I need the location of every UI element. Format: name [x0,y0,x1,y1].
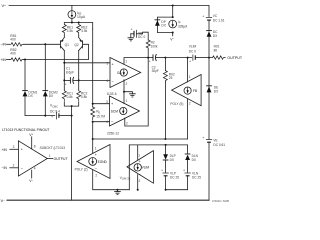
svg-text:400: 400 [10,37,16,41]
wire V- rail [7,199,209,201]
svg-text:3: 3 [106,100,108,104]
svg-text:−IN: −IN [2,166,8,170]
svg-text:SCM: SCM [111,110,118,114]
diode DP DX [155,20,167,28]
svg-text:DC 0: DC 0 [189,49,196,53]
svg-text:113E-6: 113E-6 [107,92,117,96]
junction dot ground stub [123,91,125,93]
ground symbol VB [128,34,134,41]
svg-text:FB: FB [193,89,197,93]
resistor R2 100k [146,40,158,49]
wire output line [165,57,191,59]
wire R02 top [164,58,166,71]
junction dot IEE rail [71,22,73,24]
wire IP tap down [172,6,174,18]
svg-text:3: 3 [107,61,109,65]
wire top V+ rail [9,5,209,7]
svg-text:2: 2 [95,174,97,178]
junction dot tail [71,105,73,107]
svg-text:0.8k: 0.8k [67,95,73,99]
svg-text:1: 1 [189,75,191,79]
svg-text:VLIM: VLIM [189,45,197,49]
junction dot VCMC to tail [71,115,73,117]
svg-text:4: 4 [106,120,108,124]
node V- rail label [1,198,6,203]
svg-text:DC 1.61: DC 1.61 [213,18,225,22]
wire bus output to DE [208,58,210,93]
svg-text:8.6pF: 8.6pF [66,70,74,74]
svg-text:30pF: 30pF [152,69,159,73]
pinout V+ stub [29,132,36,149]
svg-text:4.5k: 4.5k [67,29,73,33]
node -IN label [1,43,7,47]
wire IEE to emitter rail [71,18,73,22]
node +IN label [1,58,7,62]
op-amp FB triangle [172,75,202,106]
op-amp EGND triangle [77,145,110,179]
svg-text:VLIM 1k: VLIM 1k [120,176,131,181]
svg-text:+: + [65,83,67,87]
svg-text:15.7M: 15.7M [96,115,105,119]
svg-text:EGND: EGND [98,160,108,164]
svg-text:8: 8 [34,144,36,148]
wire node line A [93,138,188,140]
wire +IN lead [7,59,10,61]
current source IEE 10uA [68,11,86,19]
wire GA pin1 [124,58,148,65]
junction dot +IN node [24,59,26,61]
wire GA pin4 line [79,79,110,81]
junction dot output bus [208,57,210,59]
junction dot DLP top [165,144,167,146]
junction dot FB pin1 [187,57,189,59]
wire FB pin2 vertical [188,99,191,139]
wire -IN to Q1 base [24,43,61,45]
wire tail down to V- rail [71,106,73,200]
battery VB DC 0 [131,28,146,40]
junction dot R02 node line [164,138,166,140]
current source IP 328uA [169,20,188,29]
wire VB to R2 [139,32,148,40]
svg-text:225E-12: 225E-12 [107,131,119,135]
svg-text:2: 2 [126,122,128,126]
resistor RE 15.7M [91,107,106,120]
diode DLP DX [163,145,176,162]
svg-text:1: 1 [95,147,97,151]
battery VLIM DC 0 [189,45,209,64]
wire box right edge / DLN chain [187,145,189,154]
svg-text:+: + [131,28,133,32]
wire Q2 collector vertical [78,51,80,90]
pinout V- stub [29,166,36,183]
junction dot -IN node [44,43,46,45]
diode DC DX [207,30,219,38]
wire -IN lead [7,43,10,45]
svg-text:4.5k: 4.5k [81,29,87,33]
op-amp GA stage triangle [107,58,141,88]
svg-text:+: + [161,168,163,172]
svg-text:−IN: −IN [1,43,7,47]
wire R2 to output node [147,49,149,57]
svg-text:100k: 100k [151,44,158,48]
svg-text:+: + [202,136,204,140]
svg-text:.SUBCKT (LT1013: .SUBCKT (LT1013 [39,146,66,150]
ground symbol mid [124,92,135,97]
wire SCM pin4 stub [93,121,110,123]
junction dot output node left [147,57,149,59]
pinout -IN lead [2,163,19,170]
wire IP to V- stub [170,33,174,42]
pinout OUT lead [47,154,67,161]
svg-text:1: 1 [138,153,140,157]
wire bus VC to DC [208,20,210,31]
svg-text:LT1013 • TA05: LT1013 • TA05 [212,199,229,203]
wire R02 bottom to node line [164,82,166,139]
svg-text:400: 400 [10,52,16,56]
junction dot R02 top [164,57,166,59]
junction dot RE2 rail [78,22,80,24]
svg-text:2: 2 [189,101,191,105]
svg-text:4: 4 [34,166,36,170]
battery VCMC DC 8.4 [50,104,72,119]
svg-text:1: 1 [125,60,127,64]
svg-text:4: 4 [107,79,109,83]
junction dot C1 left [63,79,65,81]
transistor Q1 [60,35,69,51]
wire VLIM pin2 [137,175,139,190]
junction dot IP loop bottom [172,32,174,34]
ground symbol rail [115,189,121,195]
resistor R01 80 [209,45,225,60]
svg-text:DC 0: DC 0 [138,35,145,39]
svg-text:OUTPUT: OUTPUT [227,56,243,60]
diode DLN DX [185,154,198,162]
resistor RC2 0.8k [77,89,88,101]
wire +IN to Q2 base corner [24,44,89,59]
resistor R02 25 [163,71,174,82]
svg-text:LT1013 FUNCTIONAL PINOUT: LT1013 FUNCTIONAL PINOUT [2,128,49,132]
wire SCM pin3 stub [93,103,110,105]
svg-text:+: + [202,14,204,18]
svg-text:2: 2 [139,179,141,183]
diode DCM2 DX [43,91,58,98]
battery VLP DC 25 [161,160,179,190]
junction dot SCM pin4 [92,121,94,123]
op-amp VLIM triangle [127,151,153,184]
junction dot VLIM pin2 [137,189,139,191]
wire emitter rail [64,23,92,30]
svg-text:DC 25: DC 25 [170,176,179,180]
resistor RB1 400 [10,34,24,46]
svg-text:Q2: Q2 [74,43,78,47]
junction dot C1 right [78,79,80,81]
junction dot VLP bottom [165,189,167,191]
wire bus DC to output node [208,37,210,58]
battery VE DC 0.61 [202,136,225,147]
svg-text:Q1: Q1 [65,43,69,47]
wire Q1 collector vertical [63,51,65,90]
svg-text:0.8k: 0.8k [81,95,87,99]
node V+ label [2,3,7,8]
svg-text:+: + [189,59,191,63]
op-amp SCM stage triangle [106,96,140,126]
wire EGND chain down [92,139,94,153]
svg-text:+: + [183,168,185,172]
svg-text:+IN: +IN [1,58,7,62]
svg-text:25: 25 [169,76,173,80]
wire DCM1 drop [24,60,26,91]
wire VLIM pin1 [137,145,139,160]
diode DCM1 DX [23,91,38,98]
svg-text:3: 3 [13,145,15,149]
transistor Q2 [74,35,82,51]
op-amp functional pinout triangle [18,141,47,176]
wire IEE tap [71,6,73,11]
wire bus VE to V- rail [208,142,210,200]
capacitor C2 30pF [148,55,165,74]
wire right bus down from rail [208,6,210,17]
svg-text:+: + [51,115,53,119]
wire GA pin3 line [64,62,110,64]
wire VLIM box [129,145,187,190]
svg-text:DC 8.4: DC 8.4 [50,109,60,113]
wire GA pin2 to SCM pin1 [124,80,128,104]
wire bias chain to node line [92,122,94,139]
junction dot IP tap [172,5,174,7]
wire DCM2 drop [44,44,46,90]
battery VLN DC 25 [166,160,202,190]
svg-text:DC 25: DC 25 [192,176,201,180]
resistor RB2 400 [10,48,24,61]
resistor RC1 0.8k [62,89,73,101]
svg-text:328µA: 328µA [178,25,188,29]
svg-text:2: 2 [126,82,128,86]
svg-text:+: + [149,59,151,63]
svg-text:POLY (2): POLY (2) [75,167,88,171]
svg-text:10µA: 10µA [77,15,86,19]
wire FB pin1 vertical [188,58,191,82]
resistor RE1 4.5k [62,23,73,36]
wire DP loop [157,17,172,32]
resistor RE2 4.5k [77,23,88,36]
wire SCM pin2 loop to output node [125,58,148,126]
svg-text:1: 1 [126,99,128,103]
battery VC DC 1.61 [202,14,224,22]
svg-text:2: 2 [13,163,15,167]
pinout +IN lead [2,145,19,152]
svg-text:80: 80 [214,49,218,53]
svg-text:VLIM: VLIM [142,166,150,170]
wire bias chain vertical [92,29,94,107]
wire bus DE to VE [208,92,210,139]
svg-text:OUTPUT: OUTPUT [54,157,68,161]
wire DCM bottoms to VCMC line [25,96,55,115]
junction dot node line left [92,138,94,140]
capacitor C1 8.6pF [64,67,78,87]
junction dot IP loop top [172,16,174,18]
svg-text:DC 0.61: DC 0.61 [213,143,225,147]
junction dot DCM2 bottom [44,115,46,117]
junction dot SCM pin3 [92,103,94,105]
svg-text:1: 1 [49,154,51,158]
wire EGND pin2 to ground line [93,170,130,190]
junction dot GA pin3 [63,62,65,64]
wire RC join [64,102,78,106]
svg-text:POLY (5): POLY (5) [170,102,183,106]
svg-text:+IN: +IN [2,148,8,152]
diode DE DX [207,85,220,93]
